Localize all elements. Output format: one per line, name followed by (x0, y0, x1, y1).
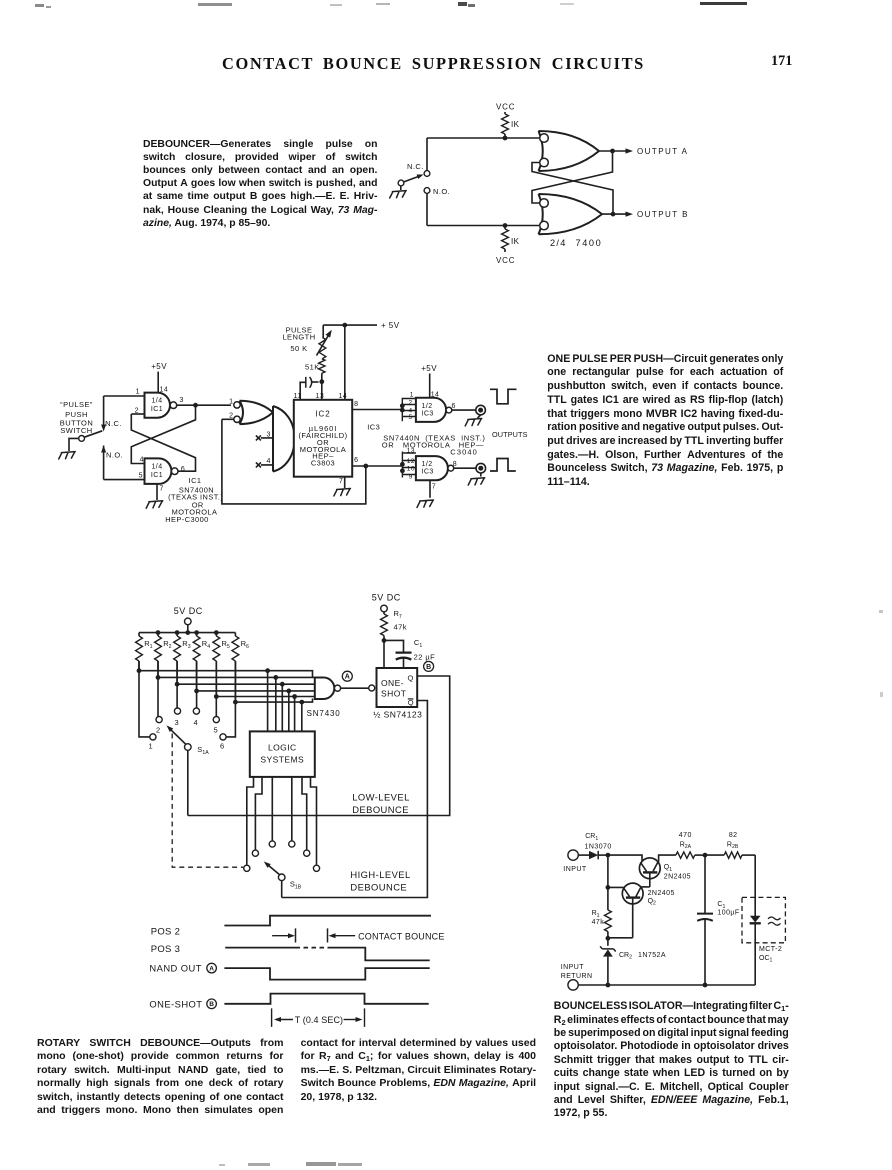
svg-text:“PULSE”: “PULSE” (60, 400, 93, 409)
node: CR1 junction (606, 853, 611, 858)
pin 4 (IC1b) (140, 456, 144, 463)
svg-text:47k: 47k (394, 623, 407, 632)
svg-text:B: B (209, 1001, 214, 1008)
wire: cross-couple pin3 to pin4 (131, 405, 195, 463)
T interval ticks (272, 1008, 365, 1027)
wire: top input rail (427, 137, 540, 139)
wire: R6 leg to contact 6 (226, 661, 235, 737)
waveform POS 2 (224, 916, 431, 926)
node: timing junction (319, 379, 324, 384)
terminal INPUT (563, 850, 587, 873)
resistor 1K top (debouncer) (502, 112, 520, 138)
svg-text:LENGTH: LENGTH (282, 333, 315, 342)
svg-text:POS 2: POS 2 (151, 927, 181, 938)
wire: row 1 (R1 to NAND) (137, 661, 313, 678)
svg-text:Q2: Q2 (648, 898, 656, 907)
svg-text:IC3: IC3 (367, 422, 380, 431)
expander D-gate (IC2 input) (273, 406, 295, 472)
svg-text:OUTPUT A: OUTPUT A (637, 147, 688, 156)
waveform ONE-SHOT (224, 994, 428, 1004)
svg-text:ONE-SHOT: ONE-SHOT (149, 998, 202, 1009)
pin 6 output (IC3a) (452, 403, 476, 410)
contact bounce ticks (296, 928, 328, 942)
svg-text:IC1: IC1 (189, 476, 202, 485)
wire: R4 leg to contact 4 (196, 661, 198, 708)
power +5V (IC1) (151, 362, 167, 371)
svg-text:R5: R5 (222, 639, 230, 650)
label OUTPUT B (637, 210, 689, 219)
svg-text:6: 6 (452, 403, 456, 410)
contact 3 (S1A) (174, 708, 180, 727)
node A circle (timing) (207, 963, 217, 973)
caption: ROTARY SWITCH DEBOUNCE column 1 (37, 1037, 284, 1117)
svg-text:2N2405: 2N2405 (664, 874, 691, 881)
svg-text:IK: IK (511, 237, 520, 246)
svg-text:7: 7 (432, 483, 436, 490)
svg-text:6: 6 (220, 742, 225, 751)
svg-text:N.O.: N.O. (106, 451, 123, 460)
ground (pulse switch) (59, 452, 75, 459)
contact 4 (S1B) (289, 841, 295, 847)
contact 5 (S1B) (304, 850, 310, 856)
wires: logic box to S1B contacts (247, 777, 317, 865)
pin 2 (IC1a) (131, 407, 144, 414)
svg-text:1: 1 (136, 388, 140, 395)
svg-text:7: 7 (339, 478, 343, 485)
resistor R1 (rotary) (136, 633, 153, 661)
terminal 5V DC (one-shot) (381, 605, 388, 612)
potentiometer 50K PULSE LENGTH (282, 325, 331, 359)
svg-text:C1: C1 (414, 638, 422, 649)
node B circle (timing) (207, 999, 217, 1009)
switch blade SW1 (debouncer) (398, 174, 423, 185)
svg-text:50 K: 50 K (290, 344, 307, 353)
svg-text:LOGIC: LOGIC (268, 743, 297, 753)
svg-text:N.C.: N.C. (105, 419, 122, 428)
svg-text:4: 4 (140, 456, 144, 463)
ground (jack B) (468, 473, 485, 485)
svg-text:CR1: CR1 (585, 833, 598, 842)
svg-text:22 µF: 22 µF (414, 653, 436, 662)
pin 13 (IC2) (316, 382, 325, 400)
wire: row 5 (R5 to NAND) (214, 661, 315, 699)
pin 5 (IC1b) (104, 472, 145, 479)
svg-text:IC2: IC2 (315, 410, 330, 419)
output jack A (one pulse) (476, 405, 486, 415)
svg-text:ONE-: ONE- (381, 678, 404, 688)
wire: pulse wiper to ground (69, 438, 79, 451)
resistor R1 47k (592, 855, 612, 938)
nand gate IC1b (1/4 IC1) (145, 458, 179, 484)
wire: +5V to pin14 IC1a (158, 372, 168, 394)
resistor R2B 82 (705, 832, 755, 858)
nand gate IC1a (1/4 IC1) (145, 393, 177, 418)
svg-text:R2A: R2A (680, 841, 692, 850)
svg-text:1: 1 (229, 399, 233, 406)
wire: S1A wiper down (187, 750, 189, 815)
svg-text:Q1: Q1 (664, 864, 672, 873)
label CONTACT BOUNCE (358, 931, 444, 941)
wire: N.O. leg (426, 193, 428, 225)
output jack B (one pulse) (476, 463, 486, 473)
wire: resistor bus (139, 630, 235, 635)
svg-text:82: 82 (729, 832, 738, 839)
dashed mechanical link S1A-S1B (172, 734, 243, 868)
label MCT-2 OC1 (759, 946, 782, 963)
svg-text:IC3: IC3 (422, 469, 434, 476)
svg-text:5: 5 (139, 472, 143, 479)
power +5V rail (IC2) (323, 321, 399, 330)
wire: R5 leg to contact 5 (215, 661, 217, 716)
svg-text:470: 470 (679, 832, 692, 839)
svg-text:CR2: CR2 (619, 952, 632, 961)
pins 13 12 10 9 (IC3b) (407, 447, 415, 480)
wire: row 2 (R2 to NAND) (156, 661, 315, 680)
label 2/4 7400 (550, 238, 602, 248)
svg-text:SWITCH: SWITCH (60, 426, 92, 435)
svg-text:47k: 47k (592, 919, 605, 926)
label OUTPUTS (492, 430, 528, 439)
svg-text:3: 3 (267, 431, 271, 438)
zener CR2 1N752A (600, 938, 666, 985)
svg-text:100µF: 100µF (717, 909, 739, 916)
power 5V DC (rotary bus) (174, 606, 203, 616)
svg-text:2/4: 2/4 (550, 238, 567, 248)
label IC3 type (382, 433, 486, 456)
wire: Q output loop (low-level) (188, 676, 450, 816)
svg-text:SN7430: SN7430 (307, 709, 341, 718)
node: R7/C1 junction (382, 638, 387, 668)
T interval arrows (274, 1017, 363, 1022)
contact 5 (S1A) (213, 717, 219, 735)
svg-text:CONTACT BOUNCE: CONTACT BOUNCE (358, 931, 444, 941)
transistor Q1 2N2405 (639, 858, 691, 887)
contact 3 (S1B) (269, 841, 275, 847)
svg-text:S1B: S1B (290, 880, 302, 891)
svg-text:Q: Q (408, 698, 414, 707)
svg-text:N.C.: N.C. (407, 162, 424, 171)
svg-text:R2B: R2B (727, 841, 739, 850)
svg-text:6: 6 (181, 466, 185, 473)
svg-text:10: 10 (407, 465, 415, 472)
scan artifacts bottom edge (248, 1163, 270, 1166)
label IC3 (367, 422, 380, 431)
page number 171 (771, 53, 792, 70)
wire: N.O. leg (pulse switch) (101, 446, 106, 480)
svg-text:INPUT: INPUT (563, 866, 587, 873)
svg-text:B: B (426, 664, 431, 671)
svg-text:2: 2 (135, 407, 139, 414)
nand gate G1 (2/4 7400, top) (539, 131, 600, 171)
label LOW-LEVEL DEBOUNCE (352, 792, 410, 816)
svg-text:HIGH-LEVEL: HIGH-LEVEL (350, 869, 410, 880)
contact 1 (S1A) (149, 734, 156, 751)
svg-text:R6: R6 (241, 639, 249, 650)
svg-text:1N752A: 1N752A (638, 952, 666, 959)
svg-text:½ SN74123: ½ SN74123 (373, 710, 422, 720)
pin 4 unused x-mark (256, 458, 273, 467)
nand buffer IC3b (1/2 IC3) (400, 452, 454, 481)
wire: row 4 (R4 to NAND) (194, 661, 315, 693)
waveform NAND OUT (224, 968, 429, 980)
pin 6 output (IC2) (352, 457, 402, 468)
resistor 51K (305, 359, 325, 382)
resistor R7 47k (381, 609, 407, 640)
switch S1A wiper (167, 725, 210, 755)
svg-text:+5V: +5V (151, 362, 167, 371)
contact 2 (S1A) (156, 717, 162, 735)
wire: output B (602, 212, 633, 217)
pin 7 + ground (IC2) (334, 477, 351, 496)
scan artifacts top edge (35, 4, 44, 7)
contact 4 (S1A) (193, 708, 199, 727)
nand gate SN7430 (307, 678, 341, 719)
contact 2 (S1B) (252, 850, 258, 856)
svg-text:NAND OUT: NAND OUT (149, 963, 202, 974)
pin 7 + ground (IC3b) (417, 480, 436, 507)
label POS 3 (151, 944, 181, 955)
svg-text:8: 8 (354, 401, 358, 408)
svg-text:4: 4 (267, 458, 271, 465)
svg-text:5: 5 (214, 726, 219, 735)
power VCC bottom (debouncer) (496, 256, 515, 265)
svg-text:1N3070: 1N3070 (585, 843, 612, 850)
svg-text:T (0.4 SEC): T (0.4 SEC) (295, 1015, 343, 1025)
svg-text:VCC: VCC (496, 103, 515, 112)
power +5V (IC3a) (421, 364, 439, 398)
label IC1 type (165, 476, 223, 524)
wire: cross-couple pin6 to pin2 (131, 414, 195, 471)
svg-text:8: 8 (453, 461, 457, 468)
svg-text:C3803: C3803 (311, 458, 335, 467)
svg-text:1: 1 (149, 742, 154, 751)
svg-text:7: 7 (160, 485, 164, 492)
contact bounce arrows (272, 933, 355, 938)
caption: ONE PULSE PER PUSH (547, 353, 783, 490)
led (optoisolator) (750, 916, 781, 985)
svg-text:5V DC: 5V DC (372, 593, 401, 603)
nand buffer IC3a (1/2 IC3) (400, 398, 452, 422)
svg-text:5: 5 (409, 414, 413, 421)
svg-text:SHOT: SHOT (381, 689, 406, 699)
label N.C. (pulse switch) (105, 419, 122, 428)
power 5V DC (one-shot) (372, 593, 401, 603)
capacitor (timing, IC2 pin11) (300, 377, 318, 400)
svg-text:2N2405: 2N2405 (648, 890, 675, 897)
wire: pin14 (IC2) (339, 325, 348, 400)
waveform: positive pulse out (490, 459, 516, 472)
svg-text:4: 4 (194, 718, 199, 727)
svg-text:Q: Q (408, 674, 414, 683)
wire: top rail to Q1 (608, 855, 642, 861)
wire: wiper to ground (400, 186, 402, 190)
svg-text:51K: 51K (305, 363, 320, 372)
label N.O. (pulse switch) (106, 451, 123, 460)
wire: right rail (754, 855, 756, 916)
wire: bottom rail (578, 983, 755, 988)
or gate (IC2 input) (234, 401, 273, 424)
svg-text:R1: R1 (592, 910, 600, 919)
node: top rail junction (503, 136, 508, 141)
svg-text:RETURN: RETURN (561, 973, 593, 980)
label NAND OUT (149, 963, 202, 974)
svg-text:1/4: 1/4 (151, 463, 162, 470)
contact N.C. (debouncer) (407, 162, 430, 176)
wire: bottom input rail (427, 225, 540, 227)
node: R2A/C1 junction (703, 853, 708, 858)
switch blade (pulse) (79, 431, 103, 442)
svg-text:R4: R4 (202, 639, 210, 650)
pins 1 2 4 5 (IC3a) (409, 391, 414, 421)
wire: row 3 (R3 to NAND) (175, 661, 315, 687)
nand gate G2 (2/4 7400, bottom) (539, 194, 603, 234)
label POS 2 (151, 927, 181, 938)
svg-text:IC3: IC3 (422, 411, 434, 418)
svg-text:OUTPUTS: OUTPUTS (492, 430, 528, 439)
svg-text:7400: 7400 (576, 238, 603, 248)
label T (0.4 SEC) (295, 1015, 343, 1025)
svg-text:5V DC: 5V DC (174, 606, 203, 616)
wire: Q-bar output loop (high-level) (282, 701, 428, 898)
svg-text:IK: IK (511, 120, 520, 129)
svg-text:2: 2 (156, 726, 161, 735)
svg-text:INPUT: INPUT (561, 964, 585, 971)
capacitor C1 22uF (384, 638, 435, 668)
svg-text:9: 9 (409, 473, 413, 480)
svg-text:12: 12 (407, 458, 415, 465)
svg-text:VCC: VCC (496, 256, 515, 265)
wire: cross-couple B to G1 input (532, 163, 613, 214)
label HIGH-LEVEL DEBOUNCE (350, 869, 410, 893)
svg-text:13: 13 (316, 393, 325, 400)
waveform: negative pulse out (490, 389, 517, 404)
wire: R3 leg to contact 3 (176, 661, 178, 708)
wire: N.C. leg (426, 138, 428, 171)
svg-text:C3040: C3040 (450, 448, 478, 457)
contact 6 (S1B) (313, 865, 319, 871)
svg-text:R2: R2 (163, 639, 171, 650)
wire: row 6 (R6 to NAND) (233, 661, 313, 704)
svg-text:N.O.: N.O. (433, 187, 450, 196)
svg-text:A: A (345, 674, 350, 681)
one-shot box (1/2 SN74123) (373, 668, 422, 720)
svg-text:3: 3 (175, 718, 180, 727)
wire: N.C. leg (pulse switch) (101, 396, 106, 432)
svg-text:SYSTEMS: SYSTEMS (260, 755, 304, 765)
resistor R2 (rotary) (155, 633, 172, 661)
svg-text:+5V: +5V (421, 364, 437, 373)
ground (debouncer switch) (390, 191, 407, 198)
wire: R1 leg to contact 1 (139, 661, 150, 737)
pin 7 + ground (IC1b) (146, 484, 164, 508)
pin 3 output (IC1a) (177, 397, 231, 408)
pin 8 output (IC2) (352, 401, 402, 409)
wire: S1B wiper down (281, 881, 283, 898)
contact 6 (S1A) (220, 734, 226, 751)
ic IC2 box (294, 400, 352, 477)
diode CR1 1N3070 (578, 833, 611, 859)
svg-text:1/4: 1/4 (151, 398, 162, 405)
wire: Q2 base rail (606, 885, 625, 890)
node: bottom rail junction (503, 223, 508, 228)
svg-text:R3: R3 (182, 639, 190, 650)
svg-text:IC1: IC1 (151, 406, 163, 413)
svg-text:IC1: IC1 (151, 472, 163, 479)
wire: cross-couple A to G2 input (532, 151, 613, 203)
svg-text:11: 11 (294, 393, 302, 400)
caption: DEBOUNCER (143, 138, 378, 230)
switch S1B wiper (264, 862, 302, 891)
svg-text:1/2: 1/2 (422, 461, 433, 468)
caption: BOUNCELESS ISOLATOR (554, 1000, 789, 1121)
transistor Q2 2N2405 (622, 883, 675, 938)
node B circle (424, 661, 434, 671)
wire: Q1 collector to rail (659, 855, 676, 862)
svg-text:6: 6 (354, 457, 358, 464)
svg-text:14: 14 (339, 393, 348, 400)
contact 1 (S1B) (244, 865, 250, 871)
svg-text:3: 3 (180, 397, 184, 404)
svg-text:2: 2 (229, 412, 233, 419)
svg-text:+ 5V: + 5V (381, 321, 400, 330)
svg-text:POS 3: POS 3 (151, 944, 181, 955)
svg-text:2: 2 (409, 399, 413, 406)
node: R1/zener junction (606, 936, 633, 941)
pin 11 (IC2) (294, 393, 302, 400)
pin 6 output (IC1b) (181, 466, 185, 473)
pin 1 (IC2 gate) (229, 399, 233, 406)
power VCC top (debouncer) (496, 103, 515, 112)
pin 1 (IC1a) (104, 388, 145, 396)
label OUTPUT A (637, 147, 688, 156)
wire: feedback IC2 pin6 to gate pin2 (222, 419, 366, 504)
page heading (222, 54, 645, 74)
svg-text:LOW-LEVEL: LOW-LEVEL (352, 792, 410, 803)
svg-text:S1A: S1A (197, 745, 209, 756)
pin 8 output (IC3b) (453, 461, 476, 468)
resistor 1K bottom (debouncer) (502, 226, 520, 253)
svg-text:A: A (209, 966, 214, 973)
wire: NAND out to one-shot (341, 685, 375, 691)
wire: output A (599, 148, 633, 153)
svg-text:R7: R7 (394, 609, 402, 620)
svg-text:MCT-2: MCT-2 (759, 946, 782, 953)
contact N.O. (debouncer) (424, 187, 450, 196)
svg-text:OC1: OC1 (759, 955, 773, 964)
resistor R4 (rotary) (193, 633, 210, 661)
optoisolator dashed box (742, 897, 785, 942)
pin 2 (IC2 gate) (222, 412, 234, 419)
logic systems box (250, 731, 315, 777)
resistor R3 (rotary) (174, 633, 191, 661)
svg-text:OUTPUT B: OUTPUT B (637, 210, 689, 219)
label PULSE PUSH BUTTON SWITCH (60, 400, 93, 435)
resistor R2A 470 (676, 832, 705, 858)
svg-text:DEBOUNCE: DEBOUNCE (352, 804, 409, 815)
svg-text:1/2: 1/2 (422, 403, 433, 410)
capacitor C1 100uF (697, 855, 740, 985)
resistor R6 (rotary) (232, 633, 249, 661)
label ONE-SHOT (149, 998, 202, 1009)
wires: drops to logic box (268, 671, 302, 732)
terminal 5V DC (185, 618, 192, 632)
terminal INPUT RETURN (561, 964, 593, 990)
ground (jack A) (465, 415, 482, 426)
wire: Q2 collector to Q1 base (642, 886, 650, 888)
svg-text:HEP-C3000: HEP-C3000 (165, 515, 209, 524)
resistor R5 (rotary) (213, 633, 230, 661)
wire: R2 leg to contact 2 (157, 661, 159, 716)
